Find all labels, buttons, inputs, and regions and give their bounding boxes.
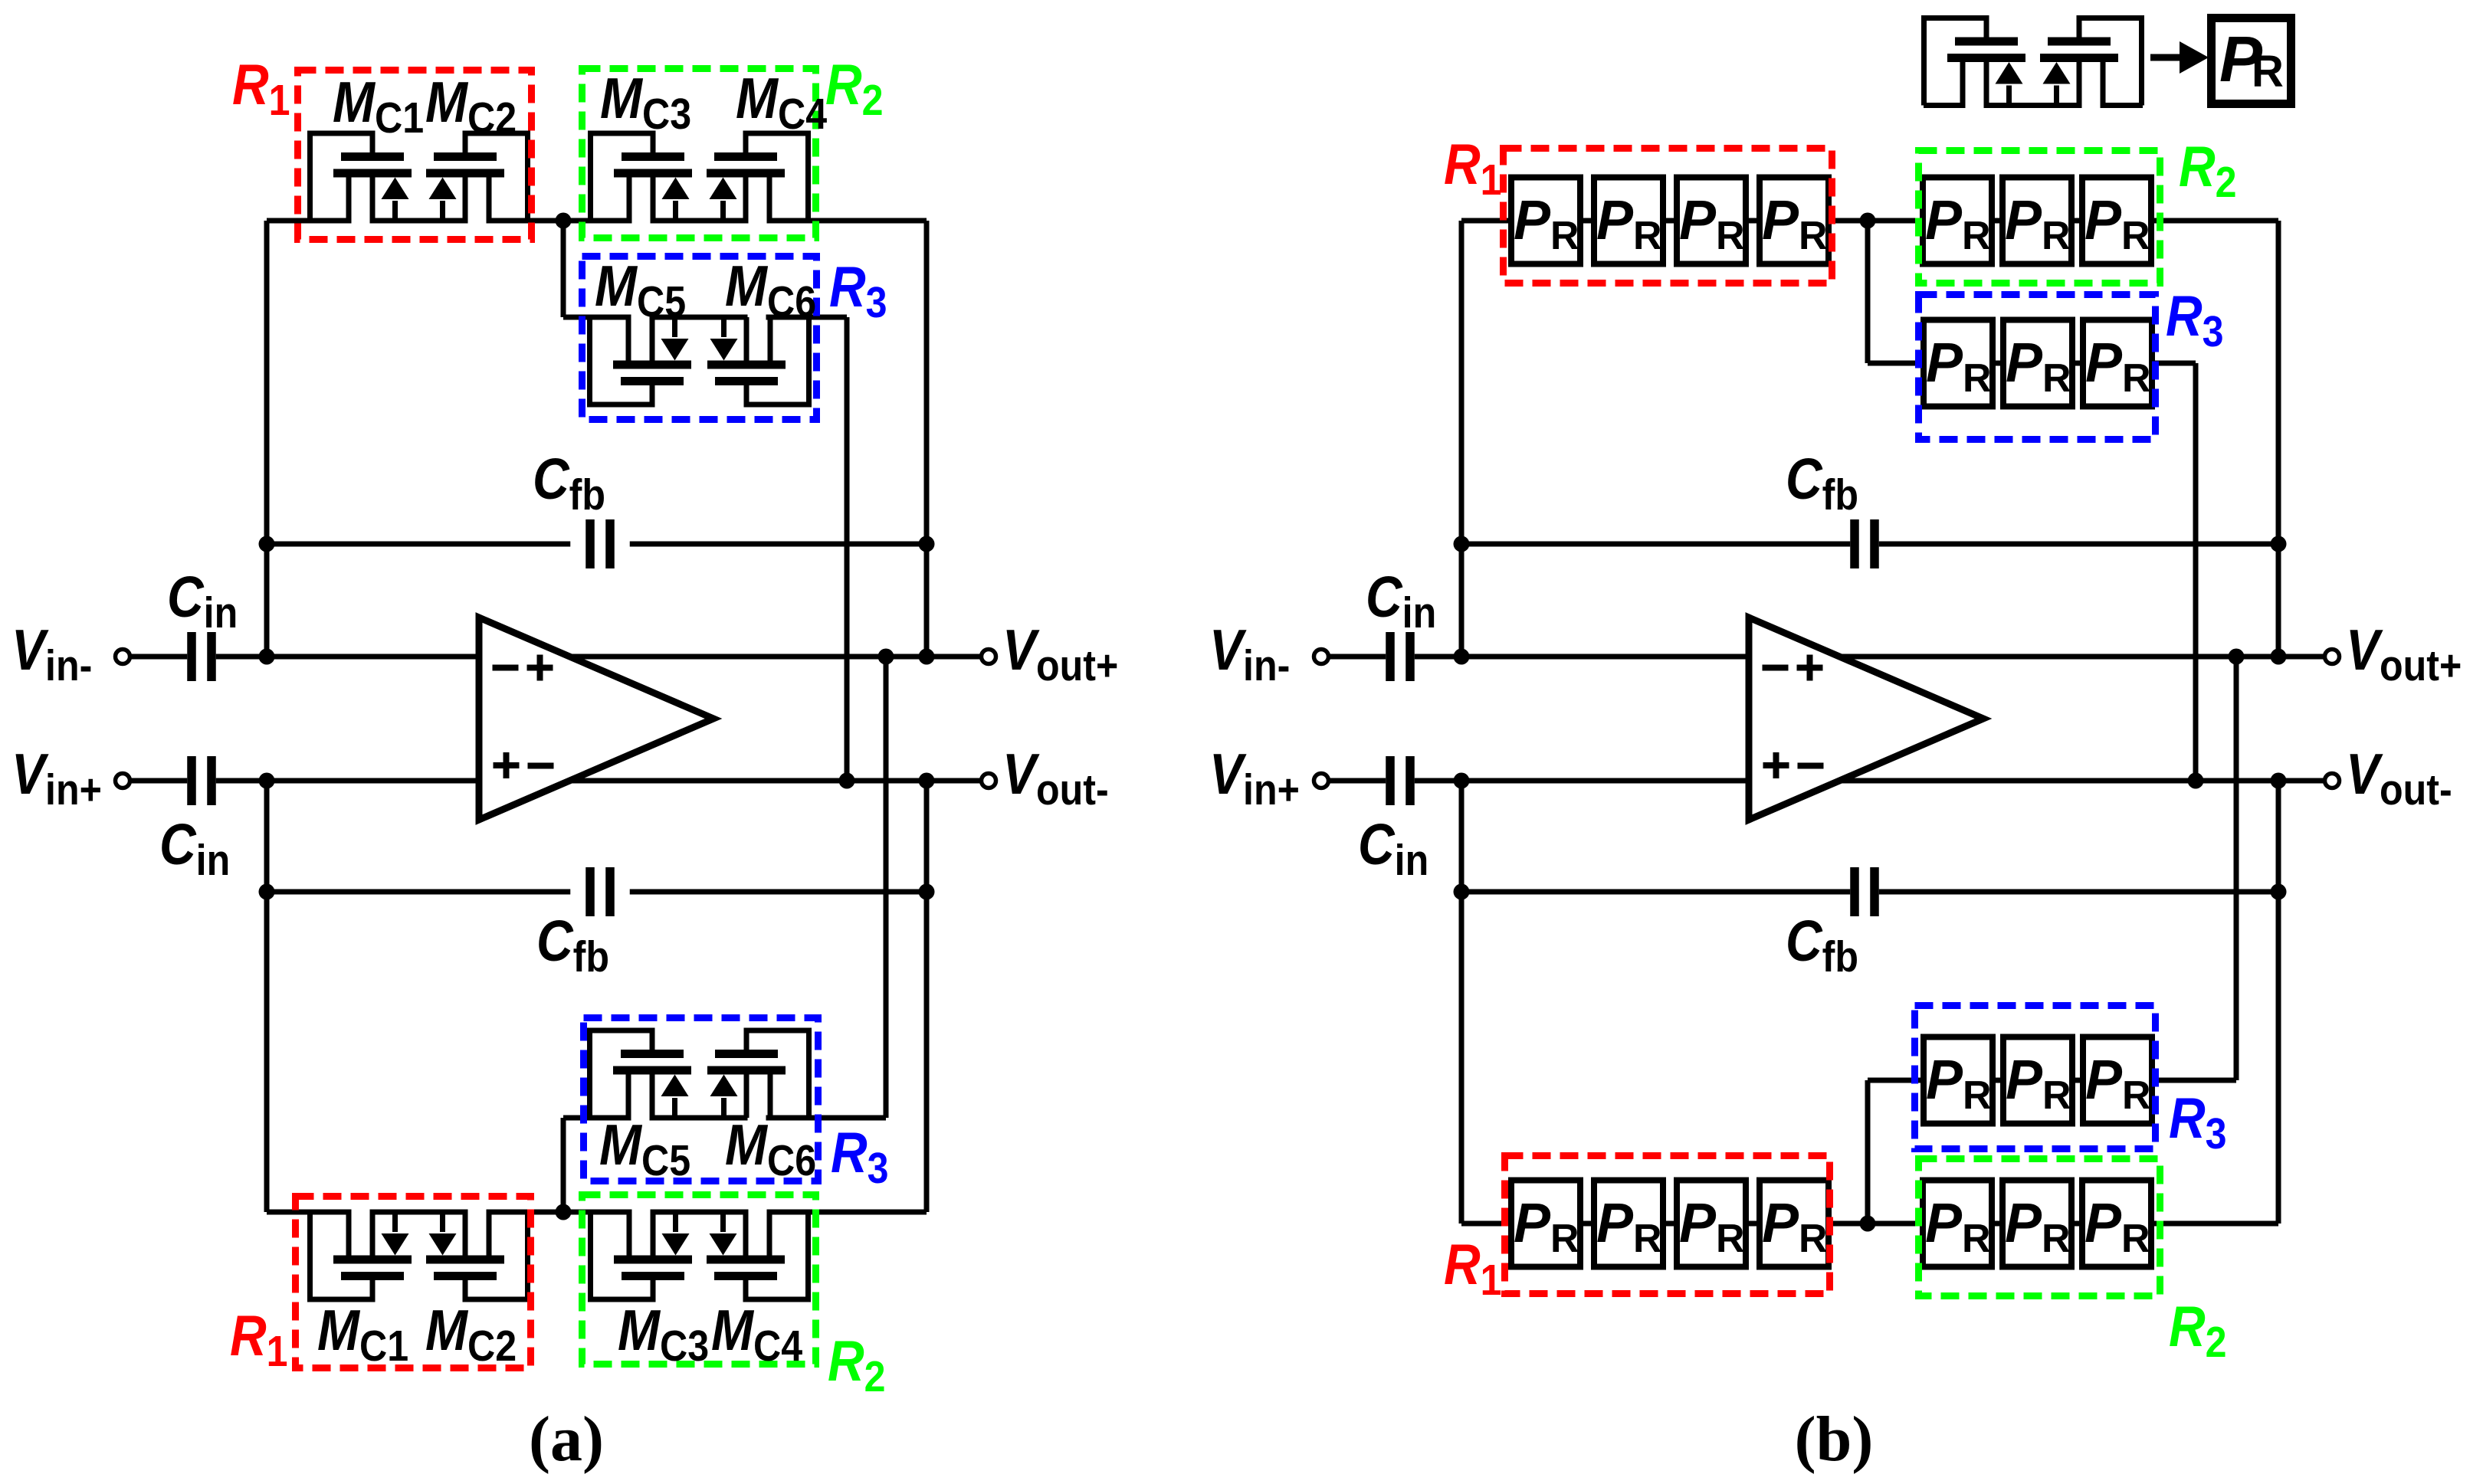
resistor R3 chain top (b) xyxy=(1868,361,2196,366)
wire R3 bottom rail (a) xyxy=(563,1115,886,1121)
transistor M_C4 bottom (a) xyxy=(707,1212,809,1299)
pseudo-resistor unit P_R box 1 xyxy=(1511,1181,1580,1267)
junction node B on Vin+ row (b) xyxy=(1454,773,1470,789)
op-amp non-inverting output label + xyxy=(1797,655,1823,681)
wire Vin+ terminal to Cin (a) xyxy=(130,778,188,784)
wire Cfb lower left segment (b) xyxy=(1461,889,1850,895)
pseudo-resistor unit P_R box 2 xyxy=(1594,1181,1663,1267)
pseudo-resistor unit P_R box 2 xyxy=(2003,320,2072,407)
transistor M_C3 bottom (a) xyxy=(591,1212,693,1299)
wire Cin to op-amp inverting input (b) xyxy=(1415,654,1749,660)
pseudo-resistor unit P_R box 3 xyxy=(1677,1181,1746,1267)
pseudo-resistor unit P_R box 1 xyxy=(1924,320,1993,407)
junction between R1 and R2 chains (b) xyxy=(1860,213,1876,229)
capacitor Cin upper (b) xyxy=(1386,632,1415,681)
op-amp non-inverting input label + xyxy=(1763,752,1789,778)
wire node B down to bottom rail (b) xyxy=(1459,781,1465,1224)
junction Cfb upper left (b) xyxy=(1454,536,1470,552)
capacitor Cin lower (b) xyxy=(1386,756,1415,805)
junction top rail end on Vout+ row (b) xyxy=(2271,649,2287,665)
capacitor Cfb lower (a) xyxy=(585,867,615,916)
legend transistor left xyxy=(1924,18,2026,106)
wire bottom junction up to R3 rail (a) xyxy=(561,1118,566,1212)
junction R3 top to Vout- row (a) xyxy=(839,773,855,789)
junction R3 bottom to Vout+ row (b) xyxy=(2229,649,2245,665)
box R1 bottom (a) xyxy=(296,1197,531,1368)
transistor M_C6 bottom (a) xyxy=(707,1030,809,1118)
wire node A up to top feedback rail (a) xyxy=(264,221,270,657)
wire Cfb upper left segment (b) xyxy=(1461,542,1850,547)
op-amp inverting input label − xyxy=(493,665,519,671)
pseudo-resistor unit P_R box 3 xyxy=(2083,320,2152,407)
terminal Vout+ (a) xyxy=(982,650,996,664)
junction node A on Vin- row (a) xyxy=(259,649,275,665)
transistor M_C1 top (a) xyxy=(310,133,412,221)
box R2 bottom (a) xyxy=(582,1195,816,1364)
svg-text:(b): (b) xyxy=(1795,1404,1874,1475)
wire Vin- terminal to Cin (a) xyxy=(130,654,188,660)
wire Cfb lower right segment (a) xyxy=(630,889,927,895)
op-amp inverting output label − xyxy=(528,763,554,769)
resistor R3 chain bottom (b) xyxy=(1868,1078,2236,1083)
transistor M_C5 bottom (a) xyxy=(590,1030,692,1118)
wire top rail through R2 pair (a) xyxy=(563,218,927,224)
wire Vout+ row (a) xyxy=(569,654,982,660)
pseudo-resistor unit P_R box 1 xyxy=(1924,1037,1993,1124)
transistor M_C4 top (a) xyxy=(707,133,809,221)
wire bottom junction up to R3 chain (b) xyxy=(1865,1080,1871,1224)
legend transistor right xyxy=(2040,18,2142,106)
junction Cfb lower right (b) xyxy=(2271,884,2287,900)
wire junction down to R3 rail (a) xyxy=(561,221,566,317)
pseudo-resistor unit P_R box 3 xyxy=(2082,1181,2151,1267)
transistor M_C2 bottom (a) xyxy=(426,1212,528,1299)
op-amp non-inverting output label + xyxy=(527,655,553,681)
legend P_R box xyxy=(2212,18,2291,104)
wire Vout- row (b) xyxy=(1839,778,2325,784)
wire Vout- row (a) xyxy=(569,778,982,784)
terminal Vin- (a) xyxy=(116,650,130,664)
junction node B on Vin+ row (a) xyxy=(259,773,275,789)
pseudo-resistor unit P_R box 2 xyxy=(1594,178,1663,264)
junction node between bottom R1 and R2 (a) xyxy=(556,1204,572,1220)
wire bottom rail right end up to Vout- (a) xyxy=(924,781,930,1212)
svg-text:R: R xyxy=(2252,47,2284,97)
wire R3 bottom right end up to Vout+ (b) xyxy=(2234,657,2239,1080)
junction between bottom R1 and R2 chains (b) xyxy=(1860,1216,1876,1232)
wire top rail through R1 pair (a) xyxy=(267,218,563,224)
resistor R2 chain top (b) xyxy=(1868,218,2278,224)
junction R3 bottom to Vout+ row (a) xyxy=(878,649,894,665)
wire Vin+ terminal to Cin (b) xyxy=(1329,778,1386,784)
op-amp non-inverting input label + xyxy=(494,752,520,778)
junction Cfb lower left (b) xyxy=(1454,884,1470,900)
transistor M_C5 top (a) xyxy=(590,317,692,405)
terminal Vout+ (b) xyxy=(2325,650,2340,664)
capacitor Cin lower (a) xyxy=(187,756,216,805)
wire bottom rail through R1 pair (a) xyxy=(267,1210,563,1215)
op-amp A1 (a) xyxy=(479,618,713,820)
junction bottom rail end on Vout- row (a) xyxy=(919,773,935,789)
pseudo-resistor unit P_R box 2 xyxy=(2002,1181,2071,1267)
wire top rail right end down to Vout+ (b) xyxy=(2276,221,2281,657)
wire Cfb upper right segment (b) xyxy=(1879,542,2278,547)
junction node between R1 and R2 (a) xyxy=(556,213,572,229)
wire Cin to op-amp inverting input, node A (a) xyxy=(216,654,479,660)
terminal Vout- (b) xyxy=(2325,774,2340,788)
capacitor Cfb upper (b) xyxy=(1850,519,1879,568)
wire junction down to R3 chain (b) xyxy=(1865,221,1871,363)
terminal Vin+ (b) xyxy=(1314,774,1329,788)
junction Cfb upper left (a) xyxy=(259,536,275,552)
op-amp inverting output label − xyxy=(1798,763,1824,769)
op-amp inverting input label − xyxy=(1763,665,1789,671)
pseudo-resistor unit P_R box 3 xyxy=(2082,178,2151,264)
junction Cfb upper right (a) xyxy=(919,536,935,552)
wire R3 top rail (a) xyxy=(563,315,847,320)
wire node B down to bottom feedback rail (a) xyxy=(264,781,270,1212)
pseudo-resistor unit P_R box 3 xyxy=(2083,1037,2152,1124)
junction top rail end on Vout+ row (a) xyxy=(919,649,935,665)
capacitor Cfb upper (a) xyxy=(585,519,615,568)
pseudo-resistor unit P_R box 1 xyxy=(1923,1181,1992,1267)
wire Cfb lower right segment (b) xyxy=(1879,889,2278,895)
junction Cfb upper right (b) xyxy=(2271,536,2287,552)
junction Cfb lower right (a) xyxy=(919,884,935,900)
wire Cin to op-amp non-inverting input (b) xyxy=(1415,778,1749,784)
svg-text:(a): (a) xyxy=(529,1404,604,1475)
capacitor Cfb lower (b) xyxy=(1850,867,1879,916)
capacitor Cin upper (a) xyxy=(187,632,216,681)
wire top rail right end down to Vout+ (a) xyxy=(924,221,930,657)
junction Cfb lower left (a) xyxy=(259,884,275,900)
resistor R1 chain top (b) xyxy=(1461,218,1868,224)
wire Vin- terminal to Cin (b) xyxy=(1329,654,1386,660)
wire R3 top right end down to Vout- (b) xyxy=(2193,363,2199,781)
box R1 bottom (b) xyxy=(1505,1156,1830,1294)
wire R3 top right end down to Vout- (a) xyxy=(845,317,850,781)
pseudo-resistor unit P_R box 4 xyxy=(1760,178,1829,264)
transistor M_C1 bottom (a) xyxy=(310,1212,412,1299)
pseudo-resistor unit P_R box 1 xyxy=(1923,178,1992,264)
wire node A up to top rail (b) xyxy=(1459,221,1465,657)
junction node A on Vin- row (b) xyxy=(1454,649,1470,665)
transistor M_C6 top (a) xyxy=(707,317,809,405)
op-amp A1 (b) xyxy=(1749,618,1983,820)
box R1 top (b) xyxy=(1504,149,1832,283)
terminal Vin+ (a) xyxy=(116,774,130,788)
wire bottom rail through R2 pair (a) xyxy=(563,1210,927,1215)
terminal Vout- (a) xyxy=(982,774,996,788)
pseudo-resistor unit P_R box 1 xyxy=(1511,178,1580,264)
legend rail segments xyxy=(1924,103,2143,108)
wire Cfb upper left segment (a) xyxy=(267,542,570,547)
box R3 bottom (b) xyxy=(1915,1006,2156,1149)
box R2 bottom (b) xyxy=(1919,1159,2160,1296)
legend arrow xyxy=(2150,54,2183,61)
wire Cfb upper right segment (a) xyxy=(630,542,927,547)
box R3 bottom (a) xyxy=(584,1018,818,1181)
resistor R1 chain bottom (b) xyxy=(1461,1221,1868,1227)
wire Cin to op-amp non-inverting input, node B (a) xyxy=(216,778,479,784)
wire R3 bottom right end up to Vout+ (a) xyxy=(884,657,889,1118)
wire Vout+ row (b) xyxy=(1839,654,2325,660)
resistor R2 chain bottom (b) xyxy=(1868,1221,2278,1227)
pseudo-resistor unit P_R box 4 xyxy=(1760,1181,1829,1267)
pseudo-resistor unit P_R box 3 xyxy=(1677,178,1746,264)
wire Cfb lower left segment (a) xyxy=(267,889,570,895)
junction bottom rail end on Vout- row (b) xyxy=(2271,773,2287,789)
box R2 top (a) xyxy=(582,69,816,238)
wire bottom rail right end up to Vout- (b) xyxy=(2276,781,2281,1224)
transistor M_C3 top (a) xyxy=(591,133,693,221)
box R3 top (b) xyxy=(1919,295,2156,440)
pseudo-resistor unit P_R box 2 xyxy=(2003,1037,2072,1124)
pseudo-resistor unit P_R box 2 xyxy=(2002,178,2071,264)
box R3 top (a) xyxy=(582,257,817,420)
box R1 top (a) xyxy=(298,70,532,240)
junction R3 top to Vout- row (b) xyxy=(2188,773,2204,789)
transistor M_C2 top (a) xyxy=(426,133,528,221)
terminal Vin- (b) xyxy=(1314,650,1329,664)
box R2 top (b) xyxy=(1919,151,2160,283)
